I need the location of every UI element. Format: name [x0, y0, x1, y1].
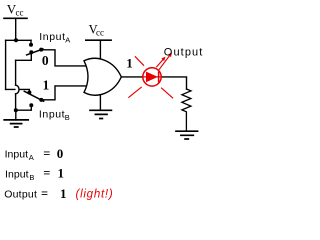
light ray lower-left [128, 87, 141, 98]
svg-text:Input: Input [39, 108, 65, 120]
switch A lever [27, 49, 43, 55]
power Vcc1 bar [4, 17, 27, 19]
svg-text:0: 0 [57, 146, 64, 161]
wire Vcc rail top [6, 39, 31, 41]
svg-text:=: = [43, 146, 50, 160]
wire switch A pole to gate input A [41, 50, 87, 66]
node switch A pole [39, 48, 43, 52]
or-gate U1 [84, 58, 121, 95]
wire Vcc1 stem [15, 18, 17, 40]
node switch B lower throw [29, 103, 33, 107]
wire gate output [121, 76, 143, 78]
node switch A lower throw [29, 50, 33, 54]
svg-text:B: B [29, 173, 34, 182]
wire ground junction to switch B lower throw [16, 107, 31, 110]
power Vcc2 bar [86, 39, 111, 41]
svg-text:A: A [29, 153, 34, 162]
LED D1 [143, 68, 162, 86]
svg-text:A: A [65, 35, 70, 44]
wire switch A lower stub [16, 54, 32, 61]
svg-text:Vcc: Vcc [89, 23, 104, 38]
node ground junction [14, 108, 18, 112]
ground left [4, 120, 28, 127]
svg-text:Output: Output [164, 47, 203, 59]
svg-text:Input: Input [39, 31, 65, 43]
wire hop over Vcc wire [16, 85, 19, 94]
svg-text:Output: Output [4, 188, 37, 200]
svg-text:=: = [43, 166, 50, 180]
wire rail to switch B upper throw [6, 89, 30, 91]
svg-text:Input: Input [5, 149, 29, 161]
svg-text:1: 1 [58, 166, 65, 181]
svg-text:1: 1 [60, 186, 67, 201]
svg-text:Input: Input [5, 168, 29, 180]
resistor R1 [182, 89, 191, 131]
svg-text:(light!): (light!) [76, 189, 113, 201]
ground left stem [15, 110, 17, 120]
wire switch A upper stub [30, 40, 32, 43]
svg-text:1: 1 [43, 77, 50, 92]
svg-text:=: = [41, 187, 48, 201]
wire LED to resistor [161, 77, 186, 89]
svg-text:0: 0 [42, 53, 49, 68]
node switch B pole [39, 98, 43, 102]
light ray upper-left [135, 56, 144, 65]
light arrow outer [159, 54, 171, 70]
wire switch B pole to gate input B [41, 86, 87, 100]
switch B lever [24, 91, 43, 101]
light arrow inner [156, 58, 164, 67]
ground gate [90, 110, 111, 118]
ground resistor [176, 131, 198, 139]
light ray lower-right [161, 88, 173, 99]
node junction A rail [14, 38, 18, 42]
node switch B upper throw [27, 91, 31, 95]
svg-text:B: B [65, 113, 70, 122]
wire ground drop [15, 60, 17, 110]
wire left rail [5, 40, 7, 89]
wire gate ground stem [99, 95, 101, 110]
wire Vcc2 stem [99, 40, 101, 58]
svg-text:Vcc: Vcc [7, 2, 24, 18]
svg-text:1: 1 [126, 56, 133, 71]
node switch A upper throw [29, 43, 33, 47]
